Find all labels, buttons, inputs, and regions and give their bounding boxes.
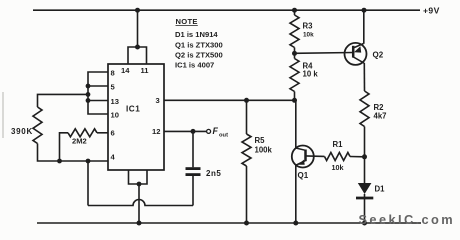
svg-text:Q1 is ZTX300: Q1 is ZTX300 bbox=[175, 41, 223, 50]
svg-text:IC1 is 4007: IC1 is 4007 bbox=[175, 61, 214, 70]
terminal: Fout open circle bbox=[207, 129, 211, 133]
transistor Q2 (ZTX500 PNP) bbox=[345, 43, 367, 65]
svg-text:Q2 is ZTX500: Q2 is ZTX500 bbox=[175, 51, 223, 60]
wire: R4 bottom to pin3 row bbox=[294, 92, 296, 101]
junction dot R3/R4/Q2 base node bbox=[292, 51, 297, 56]
wire: bracket joining pin 14 and pin 11 stubs bbox=[128, 47, 147, 64]
wire: IC1 bottom bracket (pin 7) bbox=[129, 170, 148, 184]
resistor R5 top lead bbox=[246, 100, 248, 134]
resistor 390k bbox=[33, 107, 42, 144]
svg-text:11: 11 bbox=[141, 66, 150, 75]
wire: 0V bottom rail bbox=[37, 222, 421, 224]
wire: R1 to R2/D1 node bbox=[350, 156, 365, 158]
junction dot pin4 row / 2M2 leg bbox=[57, 159, 62, 164]
wire: left input bus joining pins 8,5,13,10 bbox=[88, 72, 108, 114]
junction dot bus/pin13 bbox=[86, 98, 91, 103]
svg-text:10: 10 bbox=[111, 111, 119, 120]
junction dot pin3 row / R4 bottom bbox=[292, 98, 297, 103]
svg-text:F: F bbox=[213, 126, 219, 136]
wire: cap top lead bbox=[192, 131, 194, 167]
junction dot pin12 row / 2n5 cap bbox=[191, 129, 196, 134]
svg-text:390K: 390K bbox=[11, 127, 33, 136]
wire: cap bottom lead bbox=[192, 176, 194, 206]
svg-text:2n5: 2n5 bbox=[206, 169, 221, 178]
resistor R1 bbox=[325, 153, 351, 161]
wire: +9V top supply rail bbox=[33, 9, 420, 11]
wire: pin 12 row to Fout terminal bbox=[164, 130, 206, 132]
junction dot on +9V rail at Q2 emitter riser bbox=[362, 8, 367, 13]
svg-text:SeekIC.com: SeekIC.com bbox=[359, 212, 456, 227]
svg-text:10k: 10k bbox=[332, 163, 344, 172]
junction dot pin4 row / drop to cap line bbox=[86, 159, 91, 164]
svg-text:14: 14 bbox=[121, 66, 130, 75]
svg-text:Q2: Q2 bbox=[373, 51, 384, 60]
junction dot on +9V rail at R3 top bbox=[292, 8, 297, 13]
resistor R5 bbox=[242, 134, 251, 166]
wire: drop from pin4 row to cap return line bbox=[87, 161, 89, 206]
capacitor 2n5 bbox=[186, 167, 201, 170]
transistor Q1 (ZTX300 NPN) bbox=[292, 146, 314, 168]
svg-text:13: 13 bbox=[111, 97, 119, 106]
svg-text:IC1: IC1 bbox=[126, 105, 140, 114]
svg-text:R5: R5 bbox=[255, 136, 266, 145]
resistor R3 bbox=[290, 15, 299, 48]
junction dot R5 on 0V rail bbox=[244, 221, 249, 226]
svg-text:100k: 100k bbox=[255, 146, 273, 155]
wire: Q2 collector down to R2 bbox=[363, 63, 365, 91]
svg-text:10 k: 10 k bbox=[303, 70, 319, 79]
wire: cap return line with crossover hump over pin7 drop bbox=[88, 200, 193, 206]
svg-text:12: 12 bbox=[152, 127, 160, 136]
wire: supply drop from +9V rail to IC1 pins 14/11 bracket bbox=[137, 10, 139, 47]
wire: R5 bottom to 0V rail bbox=[246, 166, 248, 223]
wire: pin 3 output row bbox=[164, 99, 295, 101]
wire: 2M2 left leg riser bbox=[60, 133, 69, 161]
junction dot bus/pin5 bbox=[86, 84, 91, 89]
svg-text:Q1: Q1 bbox=[298, 171, 309, 180]
wire: pin 13 stub bbox=[88, 100, 108, 102]
wire: pin 5 stub bbox=[88, 85, 108, 87]
svg-text:10k: 10k bbox=[303, 32, 314, 39]
svg-text:8: 8 bbox=[111, 69, 115, 78]
wire: pin 7 drop to 0V rail bbox=[138, 184, 140, 223]
junction dot pin7 drop on 0V rail bbox=[137, 221, 142, 226]
resistor R2 bbox=[360, 91, 369, 127]
wire: Q2 base wire from R3/R4 node bbox=[295, 52, 354, 55]
svg-text:4k7: 4k7 bbox=[374, 112, 387, 121]
wire: 390k bottom to pin 4 row bbox=[38, 144, 109, 162]
junction dot D1 on 0V rail bbox=[362, 221, 367, 226]
svg-text:+9V: +9V bbox=[423, 5, 440, 15]
junction dot Q1 emitter on 0V rail bbox=[293, 221, 298, 226]
junction dot pin3 row / R5 bbox=[244, 98, 249, 103]
svg-text:out: out bbox=[219, 133, 228, 139]
scan artifact left edge (decorative) bbox=[2, 92, 4, 138]
wire: 2M2 to pin 6 bbox=[97, 132, 108, 134]
junction dot on +9V rail above IC1 supply bbox=[135, 8, 140, 13]
IC op U1 body: IC1 4007 package outline bbox=[108, 64, 164, 170]
diode D1 (1N914) bbox=[356, 183, 373, 223]
resistor 2M2 bbox=[68, 129, 97, 137]
svg-text:R1: R1 bbox=[333, 140, 344, 149]
wire: R2 bottom to R1/D1 node bbox=[364, 127, 366, 184]
resistor R4 bbox=[290, 59, 299, 92]
junction dot bus/390k bbox=[86, 92, 91, 97]
junction dot bottom bracket bbox=[137, 182, 142, 187]
svg-text:2M2: 2M2 bbox=[72, 137, 87, 146]
junction dot R2/R1/D1 node bbox=[362, 154, 367, 159]
wire: 390k top connection to bus bbox=[38, 94, 89, 107]
svg-text:6: 6 bbox=[111, 129, 115, 138]
svg-text:D1: D1 bbox=[375, 185, 386, 194]
junction dot on pin14/11 bracket bbox=[135, 45, 140, 50]
wire: Q1 emitter down to 0V rail bbox=[295, 165, 297, 223]
wire: Q2 emitter to +9V rail bbox=[363, 10, 365, 44]
svg-text:3: 3 bbox=[156, 96, 160, 105]
svg-text:R3: R3 bbox=[303, 22, 314, 31]
wire: Q1 base lead bbox=[306, 155, 325, 158]
wire: Q1 collector up to pin3 row bbox=[295, 100, 297, 148]
svg-text:NOTE: NOTE bbox=[176, 17, 198, 26]
svg-text:D1 is 1N914: D1 is 1N914 bbox=[175, 30, 218, 39]
